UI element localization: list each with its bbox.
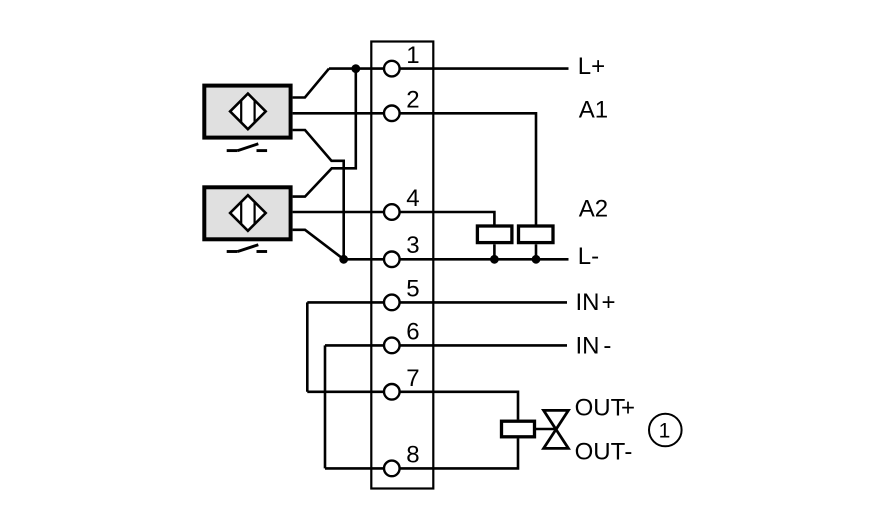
- junction node right resistor to L-: [532, 255, 541, 264]
- svg-text:IN: IN: [576, 332, 600, 359]
- label OUT-: [575, 439, 633, 466]
- connector strip X1: [371, 42, 433, 489]
- svg-text:7: 7: [406, 365, 419, 392]
- svg-text:L-: L-: [578, 243, 599, 270]
- proximity sensor B2: [204, 187, 290, 239]
- pin 7 terminal: [384, 365, 420, 400]
- solenoid coil Y1: [502, 421, 535, 437]
- valve symbol: [544, 410, 569, 448]
- svg-text:+: +: [602, 289, 616, 316]
- wire L- (pin 3 row): [344, 258, 569, 261]
- svg-text:+: +: [621, 394, 635, 421]
- wire sensor B2 L+ stub: [293, 69, 356, 197]
- wire bridge pin 5 to pin 7: [306, 302, 309, 391]
- wire sensor B2 output to pin 4 / A2 row: [293, 212, 495, 225]
- wire coil to valve: [536, 428, 556, 431]
- svg-text:1: 1: [406, 42, 419, 69]
- svg-text:L+: L+: [578, 53, 605, 80]
- load resistor on A2: [477, 226, 512, 259]
- wire pin 8 row from solenoid: [325, 439, 518, 469]
- label IN-: [576, 332, 612, 359]
- load resistor on A1: [519, 226, 554, 259]
- switch contact of sensor B2: [227, 245, 267, 252]
- svg-text:OUT: OUT: [575, 439, 626, 466]
- svg-text:OUT: OUT: [575, 394, 626, 421]
- wire pin 7 row to solenoid: [307, 392, 518, 420]
- wire sensor B2 L- stub: [293, 230, 344, 259]
- svg-text:5: 5: [406, 275, 419, 302]
- svg-text:2: 2: [406, 87, 419, 114]
- pin 8 terminal: [384, 441, 420, 476]
- pin 5 terminal: [384, 275, 420, 310]
- junction node on L- at pin 3: [339, 255, 348, 264]
- callout 1: [649, 414, 682, 447]
- svg-text:3: 3: [406, 232, 419, 259]
- pin 3 terminal: [384, 232, 420, 267]
- pin 6 terminal: [384, 318, 420, 353]
- label IN+: [576, 289, 616, 316]
- label OUT+: [575, 394, 635, 421]
- wire L+ (pin 1 row): [329, 67, 569, 70]
- svg-text:IN: IN: [576, 289, 600, 316]
- pin 2 terminal: [384, 87, 420, 122]
- junction node left resistor to L-: [490, 255, 499, 264]
- pin 1 terminal: [384, 42, 420, 77]
- svg-text:A1: A1: [579, 97, 608, 124]
- svg-text:-: -: [624, 439, 632, 466]
- svg-text:1: 1: [659, 419, 671, 442]
- svg-text:8: 8: [406, 441, 419, 468]
- svg-text:-: -: [603, 332, 611, 359]
- pin 4 terminal: [384, 185, 420, 220]
- wire IN+ (pin 5 row): [307, 301, 567, 304]
- switch contact of sensor B1: [227, 144, 267, 151]
- junction node on L+ at pin 1: [351, 64, 360, 73]
- wire bridge pin 6 to pin 8: [324, 345, 327, 468]
- wire IN- (pin 6 row): [325, 344, 567, 347]
- svg-text:6: 6: [406, 318, 419, 345]
- wire sensor B1 L- stub: [293, 130, 344, 259]
- proximity sensor B1: [204, 86, 290, 138]
- svg-text:A2: A2: [579, 195, 608, 222]
- wire sensor B1 output to pin 2 / A1 row: [293, 113, 536, 224]
- svg-text:4: 4: [406, 185, 419, 212]
- wire sensor B1 L+ stub: [293, 69, 329, 98]
